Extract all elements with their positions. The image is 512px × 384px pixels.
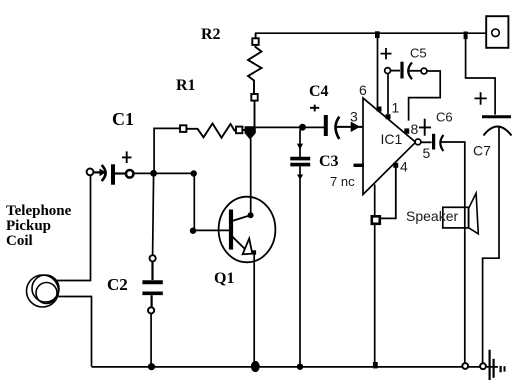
wire bottom ground rail	[92, 366, 499, 368]
resistor R2	[248, 33, 262, 126]
node junction C2-rail	[148, 363, 155, 370]
pin 3 arrowhead	[352, 123, 363, 131]
transistor Q1	[219, 197, 276, 263]
svg-text:7 nc: 7 nc	[330, 174, 355, 189]
wire top supply rail	[255, 32, 486, 34]
node junction square below IC	[372, 216, 380, 224]
node junction blob R1 R2 collector C4	[245, 126, 256, 140]
wire base	[193, 229, 230, 231]
terminal ring C7-rail	[480, 363, 486, 369]
wire blob to C4	[256, 126, 324, 128]
wire C3 branch upper	[299, 130, 301, 158]
polarity tick below C3	[297, 175, 303, 180]
wire V+ drop from rail	[377, 34, 379, 109]
capacitor C7	[482, 117, 512, 136]
pin square 6 on hypotenuse	[377, 107, 382, 112]
wire down to base row	[193, 174, 195, 231]
wire C7 down to rail	[483, 128, 499, 364]
wire C5 right loop to pin8 stub	[409, 71, 441, 121]
svg-text:Pickup: Pickup	[6, 218, 51, 234]
wire C3 branch lower	[299, 166, 301, 366]
svg-text:IC1: IC1	[381, 131, 403, 147]
svg-text:Telephone: Telephone	[6, 203, 72, 219]
op-amp IC1 triangle	[363, 98, 421, 195]
svg-text:C2: C2	[107, 275, 128, 294]
capacitor C2	[142, 255, 162, 366]
node tick supply-rail C7 tap	[464, 32, 468, 40]
node junction emitter-rail	[251, 361, 260, 372]
wire stub from triangle bottom edge	[374, 185, 376, 217]
svg-text:Speaker: Speaker	[406, 208, 458, 224]
plus mark C7	[475, 92, 487, 104]
wire C6 out to speaker column	[440, 142, 465, 364]
node tick on top rail	[375, 31, 380, 38]
wire coil bottom lead	[59, 297, 92, 367]
wire emitter to rail	[253, 254, 255, 367]
pin square 1 on hypotenuse	[386, 114, 391, 119]
node tick IC-ground rail	[373, 362, 378, 368]
svg-text:6: 6	[359, 82, 367, 98]
svg-text:C7: C7	[473, 143, 491, 159]
wire C2 column upper	[153, 174, 154, 255]
wire pin4 down	[380, 168, 396, 219]
node junction C3-rail	[297, 364, 303, 370]
svg-text:C5: C5	[410, 46, 427, 61]
speaker symbol	[443, 193, 479, 234]
wire coil top lead	[55, 176, 91, 281]
svg-text:8: 8	[411, 121, 419, 137]
capacitor C6	[421, 134, 444, 151]
wire C1 output	[134, 172, 191, 174]
svg-text:R1: R1	[176, 77, 196, 94]
pin square 4 on hypotenuse	[393, 163, 398, 168]
node junction C1-row to base drop	[191, 170, 197, 176]
node junction base corner	[190, 228, 196, 234]
svg-text:C4: C4	[309, 83, 329, 100]
svg-text:C1: C1	[112, 109, 134, 129]
pin 2 stub	[354, 164, 365, 167]
node junction C1-out	[150, 170, 157, 177]
capacitor C5	[381, 48, 427, 79]
ground symbol	[490, 350, 505, 380]
svg-text:C3: C3	[319, 153, 339, 170]
svg-text:Coil: Coil	[6, 233, 33, 249]
svg-text:1: 1	[392, 100, 400, 116]
wire up to R1	[154, 128, 180, 172]
wire C5 left down to pin1	[387, 74, 389, 114]
svg-text:4: 4	[400, 159, 408, 175]
svg-text:R2: R2	[201, 26, 221, 43]
node junction C3 tap	[299, 124, 306, 131]
pin square 8 on hypotenuse	[404, 128, 409, 133]
svg-text:Q1: Q1	[214, 270, 234, 287]
terminal ring speaker-rail	[462, 363, 468, 369]
svg-text:C6: C6	[436, 110, 453, 125]
label Telephone Pickup Coil	[6, 203, 72, 249]
pickup coil L1	[27, 275, 60, 307]
resistor R1	[180, 124, 247, 138]
wire rail to C7	[466, 33, 496, 114]
capacitor C1	[87, 151, 134, 184]
wire IC ground column	[374, 224, 376, 363]
svg-text:3: 3	[350, 109, 358, 125]
polarity tick above C3	[297, 144, 303, 150]
capacitor C4	[310, 105, 363, 139]
capacitor C3	[290, 159, 310, 165]
plus mark C6	[419, 119, 431, 136]
wire collector	[250, 139, 252, 214]
connector box J1	[486, 16, 508, 48]
svg-text:5: 5	[423, 145, 431, 161]
